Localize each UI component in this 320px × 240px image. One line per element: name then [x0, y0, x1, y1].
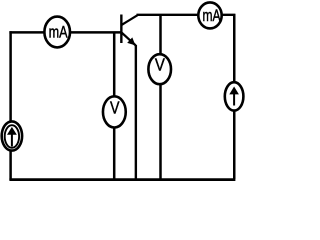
- svg-text:V: V: [110, 98, 120, 118]
- svg-text:mA: mA: [203, 6, 221, 25]
- svg-text:mA: mA: [49, 23, 68, 42]
- svg-text:V: V: [155, 55, 165, 75]
